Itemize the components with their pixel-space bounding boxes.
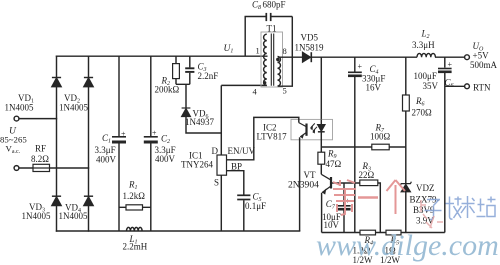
wire AC input line 2 bbox=[19, 167, 89, 169]
svg-text:22Ω: 22Ω bbox=[359, 170, 375, 180]
svg-text:8: 8 bbox=[283, 46, 287, 56]
resistor R3 22ohm bbox=[360, 180, 381, 233]
wire left bridge column VD1/VD3 bbox=[56, 56, 58, 231]
opto emitter arrow bbox=[300, 134, 304, 139]
IC1 TNY264 box bbox=[217, 155, 227, 175]
wire bottom rail secondary bbox=[322, 232, 445, 234]
wire bottom rail primary bbox=[57, 230, 300, 232]
resistor R2 bbox=[173, 56, 180, 84]
capacitor C3 bbox=[185, 56, 194, 84]
wire drain column bbox=[220, 85, 222, 155]
transformer T1 primary winding bbox=[264, 34, 267, 85]
svg-text:1N4005: 1N4005 bbox=[59, 211, 88, 221]
diode VD3 bbox=[52, 196, 61, 205]
svg-text:1.2kΩ: 1.2kΩ bbox=[123, 191, 146, 201]
wire VD6 to drain node bbox=[186, 117, 221, 134]
wire secondary output line bbox=[278, 56, 465, 58]
capacitor C6 bbox=[438, 57, 452, 232]
terminal input 1 bbox=[14, 116, 19, 121]
svg-text:1N4937: 1N4937 bbox=[185, 117, 214, 127]
svg-text:8.2Ω: 8.2Ω bbox=[31, 154, 49, 164]
capacitor C8 bbox=[245, 13, 292, 56]
svg-text:47Ω: 47Ω bbox=[326, 159, 342, 169]
opto phototransistor bbox=[299, 123, 307, 231]
svg-text:1N4005: 1N4005 bbox=[22, 211, 51, 221]
resistor R7 bbox=[372, 144, 389, 150]
resistor R6 bbox=[403, 57, 410, 147]
capacitor C5 bbox=[237, 195, 250, 231]
svg-text:TNY264: TNY264 bbox=[181, 160, 213, 170]
svg-text:100μF: 100μF bbox=[414, 71, 437, 81]
svg-text:5: 5 bbox=[283, 86, 287, 96]
wire VT base bbox=[331, 182, 360, 184]
diode VD4 bbox=[84, 196, 93, 205]
svg-text:1: 1 bbox=[256, 46, 260, 56]
svg-text:100Ω: 100Ω bbox=[370, 132, 391, 142]
resistor R5 bbox=[386, 230, 401, 235]
transformer T1 secondary winding bbox=[278, 57, 281, 87]
resistor R1 bbox=[119, 205, 151, 210]
svg-text:85~265: 85~265 bbox=[0, 135, 27, 145]
svg-text:VT: VT bbox=[304, 170, 316, 180]
transformer T1 core bbox=[271, 34, 273, 86]
resistor R4 bbox=[360, 230, 376, 235]
wire BP to C5 bbox=[227, 171, 244, 195]
wire right bridge column VD2/VD4 bbox=[88, 56, 90, 231]
svg-text:1N4005: 1N4005 bbox=[59, 103, 88, 113]
svg-text:RF: RF bbox=[35, 143, 46, 153]
svg-text:T1: T1 bbox=[267, 24, 277, 34]
svg-text:270Ω: 270Ω bbox=[412, 108, 433, 118]
svg-text:2.2nF: 2.2nF bbox=[198, 71, 219, 81]
svg-text:+: + bbox=[448, 60, 453, 69]
watermark red CJK 1st char bbox=[333, 180, 356, 215]
inductor L2 bbox=[417, 53, 435, 57]
svg-text:680pF: 680pF bbox=[263, 0, 286, 10]
wire clamp join bbox=[176, 84, 190, 108]
wire S pin bbox=[220, 175, 222, 231]
svg-text:3.3μF: 3.3μF bbox=[95, 145, 116, 155]
wire AC input line 1 bbox=[19, 118, 57, 120]
svg-text:BP: BP bbox=[231, 162, 242, 172]
capacitor C7 bbox=[337, 183, 351, 233]
svg-text:VDZ: VDZ bbox=[416, 183, 435, 193]
wire pin5 to C8 leg bbox=[278, 17, 292, 87]
optocoupler IC2 box bbox=[291, 119, 333, 139]
svg-text:S: S bbox=[214, 178, 219, 188]
inductor L1 bbox=[127, 227, 143, 231]
svg-text:0.1μF: 0.1μF bbox=[245, 201, 266, 211]
watermark blue CJK right bbox=[425, 196, 496, 220]
svg-text:+: + bbox=[358, 62, 363, 71]
watermark red CJK small right bbox=[421, 200, 443, 228]
wire R7 line bbox=[321, 146, 406, 148]
svg-text:400V: 400V bbox=[96, 154, 117, 164]
svg-text:400V: 400V bbox=[155, 154, 176, 164]
svg-text:www.dilge.com: www.dilge.com bbox=[316, 229, 499, 262]
svg-text:D: D bbox=[212, 146, 219, 156]
diode VD1 bbox=[52, 78, 61, 87]
diode VD2 bbox=[84, 78, 93, 87]
terminal RTN bbox=[465, 84, 470, 89]
transistor VT 2N3904 bbox=[321, 174, 331, 232]
svg-text:1N4005: 1N4005 bbox=[5, 103, 34, 113]
transformer T1 box bbox=[261, 32, 283, 87]
svg-text:+: + bbox=[152, 129, 157, 138]
transformer dot secondary bbox=[276, 58, 279, 61]
svg-text:2.2mH: 2.2mH bbox=[123, 242, 148, 252]
svg-text:3.3μH: 3.3μH bbox=[412, 40, 435, 50]
svg-text:200kΩ: 200kΩ bbox=[155, 85, 180, 95]
transformer dot primary bbox=[263, 81, 266, 84]
svg-text:+5V: +5V bbox=[473, 51, 490, 61]
terminal Uo+ bbox=[465, 55, 470, 60]
svg-text:16V: 16V bbox=[366, 83, 382, 93]
resistor RF (fusible) bbox=[33, 164, 50, 171]
terminal input 2 bbox=[14, 166, 19, 171]
svg-text:2N3904: 2N3904 bbox=[288, 180, 319, 191]
VT emitter arrow bbox=[322, 188, 326, 194]
svg-text:500mA: 500mA bbox=[470, 60, 498, 70]
capacitor C2 bbox=[144, 56, 158, 231]
watermark red CJK 2nd char bbox=[358, 196, 378, 199]
diode VD6 bbox=[182, 108, 191, 117]
svg-text:VD5: VD5 bbox=[301, 32, 319, 42]
wire EN/UV to opto collector bbox=[227, 117, 299, 159]
wire RTN branch bbox=[445, 85, 465, 87]
watermark red CJK 3rd char bbox=[387, 180, 406, 214]
resistor R9 bbox=[318, 147, 325, 174]
capacitor C4 bbox=[348, 57, 362, 232]
opto light arrows bbox=[310, 123, 317, 133]
svg-text:LTV817: LTV817 bbox=[257, 132, 288, 142]
svg-text:EN/UV: EN/UV bbox=[228, 146, 256, 156]
zener diode VDZ bbox=[400, 147, 411, 233]
capacitor C1 bbox=[112, 56, 126, 231]
wire LED anode drop bbox=[320, 57, 322, 119]
svg-text:RTN: RTN bbox=[473, 82, 491, 92]
wire primary bottom (pin4) bbox=[221, 84, 266, 86]
diode VD5 bbox=[303, 52, 312, 62]
opto LED bbox=[318, 119, 325, 147]
svg-text:+: + bbox=[121, 130, 126, 139]
svg-text:1N5819: 1N5819 bbox=[295, 42, 324, 52]
svg-text:35V: 35V bbox=[423, 81, 439, 91]
wire top bus primary bbox=[57, 55, 267, 57]
